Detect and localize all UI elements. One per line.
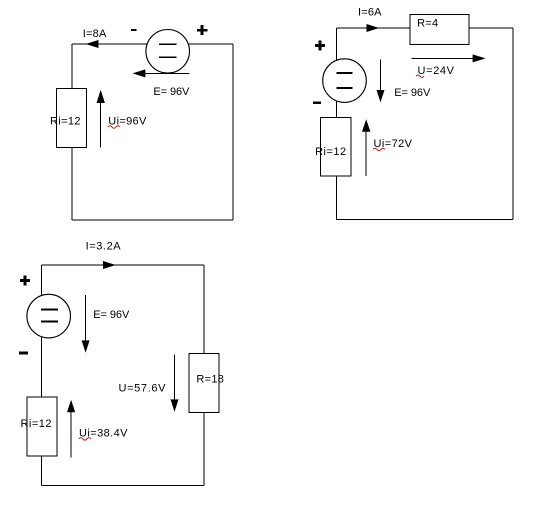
arrow: internal voltage Ui (circuit 1)	[97, 90, 105, 148]
resistor Ri (circuit 2)	[321, 117, 351, 176]
polarity - (circuit 2 source)	[313, 102, 321, 105]
arrow: EMF direction E (circuit 3)	[82, 295, 90, 353]
wire: circuit 3 left segment	[41, 265, 43, 485]
arrow: current I (circuit 2)	[367, 24, 380, 32]
svg-text:U=24V: U=24V	[418, 65, 455, 77]
wire: circuit 1 bottom segment	[72, 219, 233, 221]
wire: circuit 2 left segment	[336, 28, 338, 220]
svg-text:Ri=12: Ri=12	[315, 146, 346, 158]
svg-text:I=3.2A: I=3.2A	[86, 240, 122, 252]
wire: circuit 2 bottom segment	[337, 219, 513, 221]
arrow: voltage U across R=18 (circuit 3)	[171, 355, 179, 412]
spellcheck squiggle under Ui (circuit 2)	[373, 148, 385, 151]
wire: circuit 2 right segment	[512, 28, 514, 220]
svg-text:E= 96V: E= 96V	[153, 86, 190, 98]
voltage source E (circuit 3)	[27, 294, 71, 338]
wire: circuit 1 right segment	[232, 44, 234, 220]
svg-text:E= 96V: E= 96V	[394, 87, 431, 99]
arrow: internal voltage Ui (circuit 3)	[67, 400, 75, 458]
svg-text:Ui=72V: Ui=72V	[374, 138, 413, 150]
resistor R=4 (circuit 2)	[410, 15, 469, 45]
resistor R=18 (circuit 3)	[189, 353, 219, 412]
spellcheck squiggle under Ui (circuit 1)	[108, 126, 120, 129]
arrow: internal voltage Ui (circuit 2)	[362, 119, 370, 176]
svg-text:R=18: R=18	[196, 374, 224, 386]
polarity + (circuit 1 source)	[197, 25, 207, 35]
svg-text:E= 96V: E= 96V	[93, 309, 130, 321]
polarity + (circuit 2 source)	[315, 41, 325, 51]
voltage source E (circuit 2)	[323, 59, 367, 103]
wire: circuit 3 right segment	[203, 265, 205, 485]
svg-text:Ui=38.4V: Ui=38.4V	[79, 427, 128, 439]
polarity - (circuit 1 source)	[131, 29, 137, 31]
svg-text:U=57.6V: U=57.6V	[119, 383, 167, 395]
svg-text:I=8A: I=8A	[83, 28, 107, 40]
spellcheck squiggle under Ui (circuit 3)	[79, 438, 91, 441]
arrow: EMF direction E (circuit 1)	[132, 69, 189, 77]
svg-text:I=6A: I=6A	[358, 7, 382, 19]
svg-text:R=4: R=4	[417, 18, 438, 30]
polarity + (circuit 3 source)	[20, 275, 30, 285]
wire: circuit 3 top segment	[42, 264, 204, 266]
arrow: EMF direction E (circuit 2)	[377, 60, 385, 103]
svg-text:Ri=12: Ri=12	[21, 418, 52, 430]
wire: circuit 1 left segment	[71, 44, 73, 220]
arrow: current I (circuit 1)	[86, 40, 99, 48]
resistor Ri (circuit 1)	[56, 88, 86, 147]
svg-text:Ri=12: Ri=12	[50, 115, 81, 127]
arrow: current I (circuit 3)	[103, 261, 116, 269]
spellcheck squiggle under U (circuit 2)	[416, 75, 424, 78]
voltage source E (circuit 1)	[146, 30, 190, 74]
wire: circuit 1 top segment	[72, 43, 233, 45]
wire: circuit 2 top segment	[337, 27, 513, 29]
arrow: voltage U across R (circuit 2)	[411, 54, 485, 62]
resistor Ri (circuit 3)	[27, 397, 57, 456]
svg-text:Ui=96V: Ui=96V	[108, 115, 147, 127]
polarity - (circuit 3 source)	[19, 352, 28, 355]
wire: circuit 3 bottom segment	[42, 484, 204, 486]
